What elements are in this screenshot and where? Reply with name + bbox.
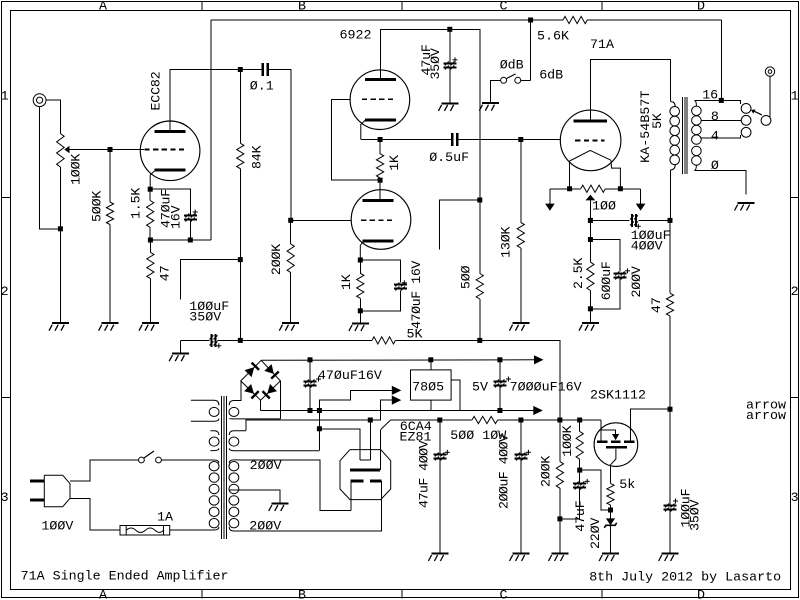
node railC-47uF	[437, 418, 442, 423]
triode 6922 upper envelope	[350, 70, 410, 130]
wire 1K srpp bottom	[379, 178, 381, 180]
ECC82 cathode	[155, 169, 186, 172]
wire cap bottom	[189, 220, 191, 241]
wire 47uF220 top	[579, 470, 581, 483]
capacitor 470uF 16V (ECC82 cathode)	[184, 210, 198, 222]
capacitor 100uF 350V (output)	[664, 499, 679, 512]
wire 100K div top	[579, 420, 581, 431]
svg-text:2ØØuF 4ØØV: 2ØØuF 4ØØV	[498, 434, 513, 509]
svg-text:2.5K: 2.5K	[572, 258, 587, 289]
wire 100uF350 top	[669, 409, 671, 505]
wire jack to pot	[46, 100, 60, 133]
svg-text:22ØV: 22ØV	[589, 518, 604, 549]
wire zener bottom	[610, 525, 612, 553]
transformer PSU rectifier heater winding right	[229, 401, 280, 419]
svg-text:47ØuF16V: 47ØuF16V	[318, 369, 382, 384]
wire 6922u cathode down	[361, 120, 366, 140]
wire switch to xfmr	[161, 459, 214, 461]
triode 6922 lower envelope	[351, 190, 411, 250]
resistor 500K	[106, 202, 113, 225]
wire 7805 gnd stub	[430, 400, 432, 410]
capacitor 47uF 220V	[573, 479, 590, 490]
svg-text:1K: 1K	[388, 155, 403, 171]
svg-text:7ØØØuF16V: 7ØØØuF16V	[510, 380, 582, 395]
ground pot	[49, 323, 69, 331]
transformer PSU 6CA4 heater winding right	[229, 431, 319, 451]
wire 2.5K bottom	[589, 291, 591, 324]
svg-text:71A Single Ended Amplifier: 71A Single Ended Amplifier	[21, 569, 229, 584]
wire 47 bottom	[149, 279, 151, 324]
ground switch	[479, 103, 499, 111]
wire to lower plate	[379, 180, 381, 200]
diode D4 bridge bottom-right	[263, 384, 278, 399]
svg-text:1ØØK: 1ØØK	[561, 425, 576, 456]
wire 0.1 to 200K line	[269, 70, 291, 221]
resistor 5k source	[607, 483, 614, 505]
wire heater B riser	[319, 390, 392, 450]
node rail-switch	[528, 18, 533, 23]
svg-text:3: 3	[791, 491, 799, 506]
6922 upper cathode	[365, 118, 396, 121]
ground 47	[139, 323, 159, 331]
wire 600uF down	[590, 278, 620, 309]
bridge rectifier diamond	[241, 360, 281, 400]
node NFB tap	[719, 98, 724, 103]
capacitor 47uF 400V	[433, 450, 450, 461]
wire 47uF400 top	[439, 420, 441, 455]
transformer OPT secondary winding	[692, 100, 702, 170]
svg-text:1: 1	[1, 89, 9, 104]
71A grid dashes	[575, 139, 604, 141]
ground 200K div	[549, 554, 569, 562]
ground NFB	[169, 354, 189, 362]
node 6922u cathode-1K	[378, 137, 383, 142]
wire fil arrow stub left	[549, 189, 551, 204]
wire cathode diag	[381, 420, 391, 430]
wire to ground	[359, 311, 361, 324]
resistor 1K (SRPP)	[377, 154, 384, 178]
fuse 1A	[120, 526, 170, 536]
wire ECC82 cathode down	[150, 170, 155, 189]
resistor 500 10W	[472, 416, 498, 423]
svg-text:C: C	[500, 0, 508, 14]
resistor 84K	[237, 143, 244, 169]
capacitor 7000uF16V	[493, 377, 511, 388]
rectifier 6CA4 envelope octagon	[340, 450, 391, 500]
wire cathode node	[361, 139, 380, 141]
wire bridge minus	[260, 400, 262, 410]
svg-text:5ØØK: 5ØØK	[91, 191, 106, 222]
svg-text:47ØuF 16V: 47ØuF 16V	[410, 261, 425, 329]
6CA4 plate left	[350, 480, 363, 483]
resistor 1.5K	[147, 201, 154, 228]
wire 200K top	[290, 220, 292, 244]
diode D1 bridge top-left	[245, 363, 260, 378]
wire plug bottom	[70, 499, 120, 531]
wire rail down left	[210, 20, 212, 240]
svg-text:84K: 84K	[250, 145, 265, 169]
6CA4 cathode bar	[350, 469, 380, 472]
wire 6922u grid	[331, 99, 380, 180]
svg-text:D: D	[697, 589, 705, 600]
wire 100uF to B	[639, 219, 671, 221]
svg-text:1K: 1K	[340, 274, 355, 290]
arrow 5V AC lower	[392, 396, 402, 405]
wire 71A plate up	[590, 60, 670, 122]
node 6922l cathode	[358, 258, 363, 263]
wire 1K top	[359, 260, 361, 273]
MOSFET 2SK1112 envelope	[594, 423, 638, 467]
wire NFB gnd stub	[179, 340, 181, 353]
svg-text:Ø.5uF: Ø.5uF	[429, 151, 469, 166]
arrow MOSFET gate	[612, 434, 619, 440]
capacitor 47uF 350V	[443, 57, 457, 69]
wire 200K bottom	[290, 273, 292, 324]
transformer OPT primary winding	[670, 102, 680, 170]
wire cap down	[360, 291, 400, 311]
wire heater A	[246, 420, 370, 431]
diode D2 bridge top-right	[264, 364, 279, 379]
wire NFB up	[720, 20, 722, 100]
wire wiper to grid	[70, 149, 141, 151]
svg-text:35ØV: 35ØV	[429, 48, 444, 79]
resistor 47 (ECC82)	[147, 252, 154, 278]
6922 upper plate	[365, 78, 396, 81]
wire top rail right	[587, 19, 721, 21]
node 2.5K gnd	[588, 306, 593, 311]
wire 130K bottom	[520, 248, 522, 323]
node cap-bus	[188, 238, 193, 243]
wire 5k bottom	[610, 505, 612, 518]
ground 500K	[99, 323, 119, 331]
svg-text:8: 8	[711, 110, 719, 125]
hum pot wiper arrow	[586, 195, 596, 201]
wire 500K bottom	[109, 225, 111, 324]
wire 47uF top	[449, 29, 451, 63]
wire bridge left AC	[240, 381, 242, 401]
capacitor 100uF 350V (NFB)	[210, 334, 222, 348]
svg-text:A: A	[99, 589, 107, 600]
svg-text:Ø.1: Ø.1	[250, 79, 274, 94]
wire cathode to 0.5uF	[361, 139, 451, 141]
wire 6922l cathode down	[360, 241, 363, 260]
resistor 200K (divider)	[556, 462, 563, 489]
ground 100uF350	[659, 554, 679, 562]
wire 200K div top	[559, 420, 561, 462]
wire NFB right	[395, 340, 560, 419]
svg-text:4ØØV: 4ØØV	[631, 239, 663, 254]
wire heater stub	[180, 260, 240, 300]
wire OPT primary bottom	[670, 170, 672, 221]
ground zener	[599, 554, 619, 562]
transformer PSU primary winding	[209, 460, 219, 530]
wire 84K top	[239, 70, 241, 144]
ground 130K	[509, 323, 529, 331]
wire bridge plus rail	[261, 359, 534, 362]
wire 84K bottom	[239, 169, 241, 341]
arrow filament supply left	[545, 204, 555, 211]
wire 6922l grid entry	[291, 219, 352, 221]
node 0.5uF-130K	[518, 137, 523, 142]
node wiper-600uF	[588, 237, 593, 242]
wire heater B to tube	[319, 429, 360, 460]
node railA-7000uF	[497, 408, 502, 413]
wire 100K div bottom	[579, 459, 581, 470]
wire HV CT	[229, 490, 280, 497]
svg-text:B: B	[298, 589, 306, 600]
svg-text:2: 2	[1, 285, 9, 300]
ECC82 grid dashes	[145, 149, 185, 151]
wire 500 top	[479, 200, 481, 274]
ground 47uF 350V	[438, 103, 458, 111]
node railA-470uF	[308, 408, 313, 413]
wire switch right	[521, 79, 531, 81]
wire heater A to tube	[369, 420, 371, 460]
arrow filament supply right	[636, 204, 646, 211]
wire 100uF350 bottom	[669, 510, 671, 554]
resistor 500	[476, 274, 483, 300]
zener diode 220V	[604, 518, 616, 527]
svg-text:71A: 71A	[590, 38, 614, 53]
svg-text:5.6K: 5.6K	[537, 30, 569, 45]
resistor 5.6K	[563, 16, 587, 23]
capacitor 0.1uF	[263, 63, 268, 76]
plug prong top	[30, 480, 44, 483]
wire heater A arrow	[370, 400, 392, 420]
node 84K-stub	[238, 257, 243, 262]
wire 7000uF top	[499, 360, 501, 382]
wire source link	[580, 470, 611, 510]
wire 500 bottom	[479, 299, 481, 341]
wire 600uF branch	[590, 240, 620, 272]
wire 1K bottom	[359, 298, 361, 311]
arrow rail B+ 5V top	[534, 355, 544, 364]
svg-text:3: 3	[1, 491, 9, 506]
wire top rail	[211, 19, 563, 21]
6CA4 plate right	[370, 480, 381, 483]
wire rail A	[261, 410, 534, 412]
MOSFET gate wire	[600, 420, 602, 440]
resistor 200K (6922 grid)	[287, 244, 294, 273]
wire 500K top	[109, 150, 111, 203]
node 1.5K-bus	[148, 238, 153, 243]
ECC82 plate	[155, 130, 186, 133]
wire 470uF top	[309, 360, 311, 382]
node railB-7805	[428, 357, 433, 362]
node drain-B	[668, 407, 673, 412]
ground 200K	[279, 323, 299, 331]
svg-text:1ØØ: 1ØØ	[592, 199, 616, 214]
wire 1.5K bottom	[149, 227, 151, 240]
wire 6922u plate up	[381, 29, 450, 79]
resistor 47 (B+)	[666, 293, 673, 316]
6CA4 heater	[359, 455, 361, 460]
node 100K-source	[577, 468, 582, 473]
svg-text:4: 4	[711, 129, 719, 144]
svg-text:16V: 16V	[170, 205, 185, 229]
resistor 130K	[517, 222, 524, 248]
node 6922 grid	[288, 218, 293, 223]
transformer OPT core	[683, 97, 688, 174]
wire 47 top	[669, 220, 671, 293]
input jack J1	[33, 94, 46, 107]
terminal 16 ohm	[741, 104, 751, 114]
svg-text:35ØV: 35ØV	[688, 500, 703, 531]
ground 200uF	[510, 554, 530, 562]
svg-text:47: 47	[159, 266, 174, 282]
wire 0.5uF to grid	[458, 139, 560, 141]
wire 200V top to plate	[239, 460, 351, 511]
node NFB-500	[477, 338, 482, 343]
capacitor 100uF 400V	[630, 214, 641, 229]
switch mains	[139, 451, 162, 463]
wire to 100uF cap	[590, 219, 629, 221]
output jack	[765, 67, 774, 76]
wire 200K-cap link	[560, 518, 580, 520]
wire 1.5K top	[149, 189, 151, 200]
wire NFB mid	[218, 339, 373, 341]
capacitor 470uF16V PSU	[304, 377, 322, 388]
capacitor 0.5uF	[452, 133, 457, 146]
wire 200K div bottom	[559, 488, 561, 553]
svg-text:2ØØK: 2ØØK	[270, 244, 285, 275]
svg-text:arrow: arrow	[746, 409, 786, 424]
svg-text:1.5K: 1.5K	[129, 188, 144, 219]
svg-text:Ø: Ø	[711, 159, 719, 174]
pot wiper arrow	[64, 146, 69, 153]
6922 upper grid dashes	[362, 98, 393, 100]
wire 47uF400 bottom	[439, 459, 441, 554]
wire stub left	[440, 200, 480, 249]
71A plate	[574, 120, 607, 123]
wire rail C	[391, 419, 473, 421]
plug prong bottom	[30, 499, 44, 502]
svg-text:47: 47	[650, 297, 665, 313]
wire ECC82 plate up	[170, 70, 240, 132]
svg-text:6dB: 6dB	[539, 69, 563, 84]
wire to 0.1 cap	[240, 69, 261, 71]
wire fil bus left	[550, 188, 581, 190]
svg-text:5V: 5V	[472, 380, 488, 395]
node wiper-100uF	[588, 218, 593, 223]
wire switch gnd stub	[490, 94, 492, 103]
svg-text:5ØØ: 5ØØ	[460, 266, 475, 290]
svg-text:78Ø5: 78Ø5	[412, 380, 444, 395]
wire ECC82 grid entry	[141, 149, 144, 151]
triode 71A envelope	[560, 110, 621, 171]
wire jack ground leg	[40, 107, 61, 229]
wire 71A grid entry	[559, 139, 561, 142]
resistor 100 hum pot	[581, 185, 606, 192]
ground OPT secondary	[735, 203, 755, 211]
MOSFET electrode bars	[597, 442, 634, 448]
wire 470uF bottom	[309, 386, 311, 411]
node railB-470uF	[308, 357, 313, 362]
terminal 8 ohm	[741, 115, 751, 125]
wire plate right down	[239, 481, 382, 531]
node railB-7000uF	[497, 357, 502, 362]
node jack-pot bottom	[58, 226, 63, 231]
svg-text:2ØØK: 2ØØK	[540, 456, 555, 487]
node NFB-84K	[238, 338, 243, 343]
wire filament right leg	[611, 160, 621, 189]
wire plug top	[70, 460, 139, 481]
wire 7805 top	[430, 360, 432, 370]
svg-text:2ØØV: 2ØØV	[249, 520, 281, 535]
wire pot bottom	[59, 167, 61, 323]
node 500 top	[477, 198, 482, 203]
wire 2.5K top	[589, 240, 591, 263]
svg-text:8th July 2012 by Lasarto: 8th July 2012 by Lasarto	[589, 571, 781, 586]
node railC-NFB	[557, 418, 562, 423]
transformer PSU core	[222, 396, 227, 539]
regulator 7805 box	[411, 370, 452, 400]
wire NFB left	[180, 339, 209, 341]
wire bridge right AC	[279, 381, 281, 419]
svg-text:2: 2	[791, 285, 799, 300]
svg-text:16: 16	[702, 88, 718, 103]
wire filament left leg	[569, 161, 571, 189]
wire fil bus right	[605, 188, 640, 190]
wire CT gnd stub	[279, 497, 281, 504]
71A filament	[570, 150, 611, 161]
svg-text:ØdB: ØdB	[500, 59, 524, 74]
node heater A	[368, 418, 373, 423]
svg-text:B: B	[298, 0, 306, 14]
wire fuse to xfmr	[170, 529, 214, 531]
svg-text:ECC82: ECC82	[149, 71, 164, 110]
triode ECC82 envelope	[140, 121, 200, 181]
wire 47 bottom	[669, 316, 671, 409]
switch 0dB/6dB	[501, 74, 521, 83]
node B-47uF	[447, 27, 452, 32]
diode D3 bridge bottom-left	[244, 384, 259, 399]
wire rail C2	[498, 419, 601, 421]
node 1K-grid	[378, 178, 383, 183]
node railA-heater	[317, 408, 322, 413]
svg-text:47uF 4ØØV: 47uF 4ØØV	[418, 440, 433, 508]
wire MOSFET source	[611, 449, 616, 484]
resistor 1K (6922 cathode)	[357, 273, 364, 298]
potentiometer 100K	[57, 134, 65, 168]
wire 29 line corner	[450, 29, 480, 200]
capacitor 470uF 16V (6922 cathode)	[394, 280, 407, 290]
node 5k-zener	[608, 508, 613, 513]
ground HV CT	[269, 504, 289, 512]
ground 47uF400	[428, 554, 448, 562]
svg-text:47uF: 47uF	[574, 500, 589, 531]
node 200K-cap	[557, 516, 562, 521]
node wiper-500K	[108, 147, 113, 152]
svg-text:C: C	[500, 589, 508, 600]
wire plate left down	[350, 481, 352, 511]
wire tap 8	[701, 119, 741, 121]
svg-text:5k: 5k	[619, 478, 635, 493]
svg-text:6ØØuF: 6ØØuF	[600, 261, 615, 300]
wire fil arrow stub right	[640, 189, 642, 204]
node ECC82 cathode	[148, 187, 153, 192]
svg-text:13ØK: 13ØK	[499, 227, 514, 258]
resistor 2.5K	[587, 262, 594, 290]
wire 47uF220 bottom	[579, 488, 581, 519]
node 100uF-B	[668, 218, 673, 223]
wire output jack down	[769, 76, 771, 117]
node ECC82 plate-84K	[238, 67, 243, 72]
transformer PSU heater winding 5V left	[209, 431, 219, 451]
node railC-200uF	[518, 418, 523, 423]
capacitor 200uF 400V	[514, 450, 531, 461]
arrow 5V AC upper	[392, 386, 402, 395]
